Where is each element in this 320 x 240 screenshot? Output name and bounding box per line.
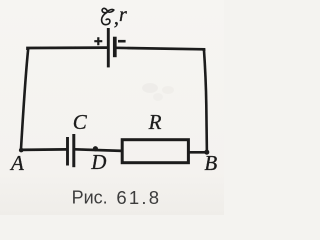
svg-text:r: r [119, 4, 127, 26]
resistor R box [122, 140, 188, 163]
faint page show-through smudge [142, 83, 174, 101]
svg-text:Рис.: Рис. [72, 187, 108, 207]
svg-text:B: B [204, 151, 217, 175]
battery minus sign [118, 40, 126, 43]
svg-text:A: A [9, 151, 24, 175]
wire bottom: resistor to B [189, 151, 207, 154]
capacitor C right plate [72, 134, 75, 167]
battery V1 short plate (-) [113, 37, 117, 58]
battery plus sign [94, 37, 102, 45]
capacitor C left plate [66, 137, 69, 166]
caption Fig. 61.8 [72, 187, 162, 208]
wire bottom: capacitor to resistor (through node D) [75, 149, 122, 151]
wire left vertical [21, 49, 28, 151]
node A junction dot [19, 148, 24, 153]
EMF script-E glyph of label "E, r" [102, 8, 114, 24]
svg-text:R: R [148, 110, 162, 134]
svg-text:C: C [73, 110, 88, 134]
wire right vertical [204, 49, 207, 152]
wire top-right (battery - plate to top-right corner) [115, 48, 204, 51]
battery V1 long plate (+) [107, 28, 110, 67]
wire bottom: A to capacitor [21, 148, 67, 151]
svg-text:D: D [90, 150, 106, 174]
wire top-left (corner A-side top to battery + plate) [28, 48, 109, 50]
svg-text:61.8: 61.8 [116, 187, 161, 208]
node B junction dot [204, 150, 209, 155]
node D junction dot [93, 146, 98, 151]
